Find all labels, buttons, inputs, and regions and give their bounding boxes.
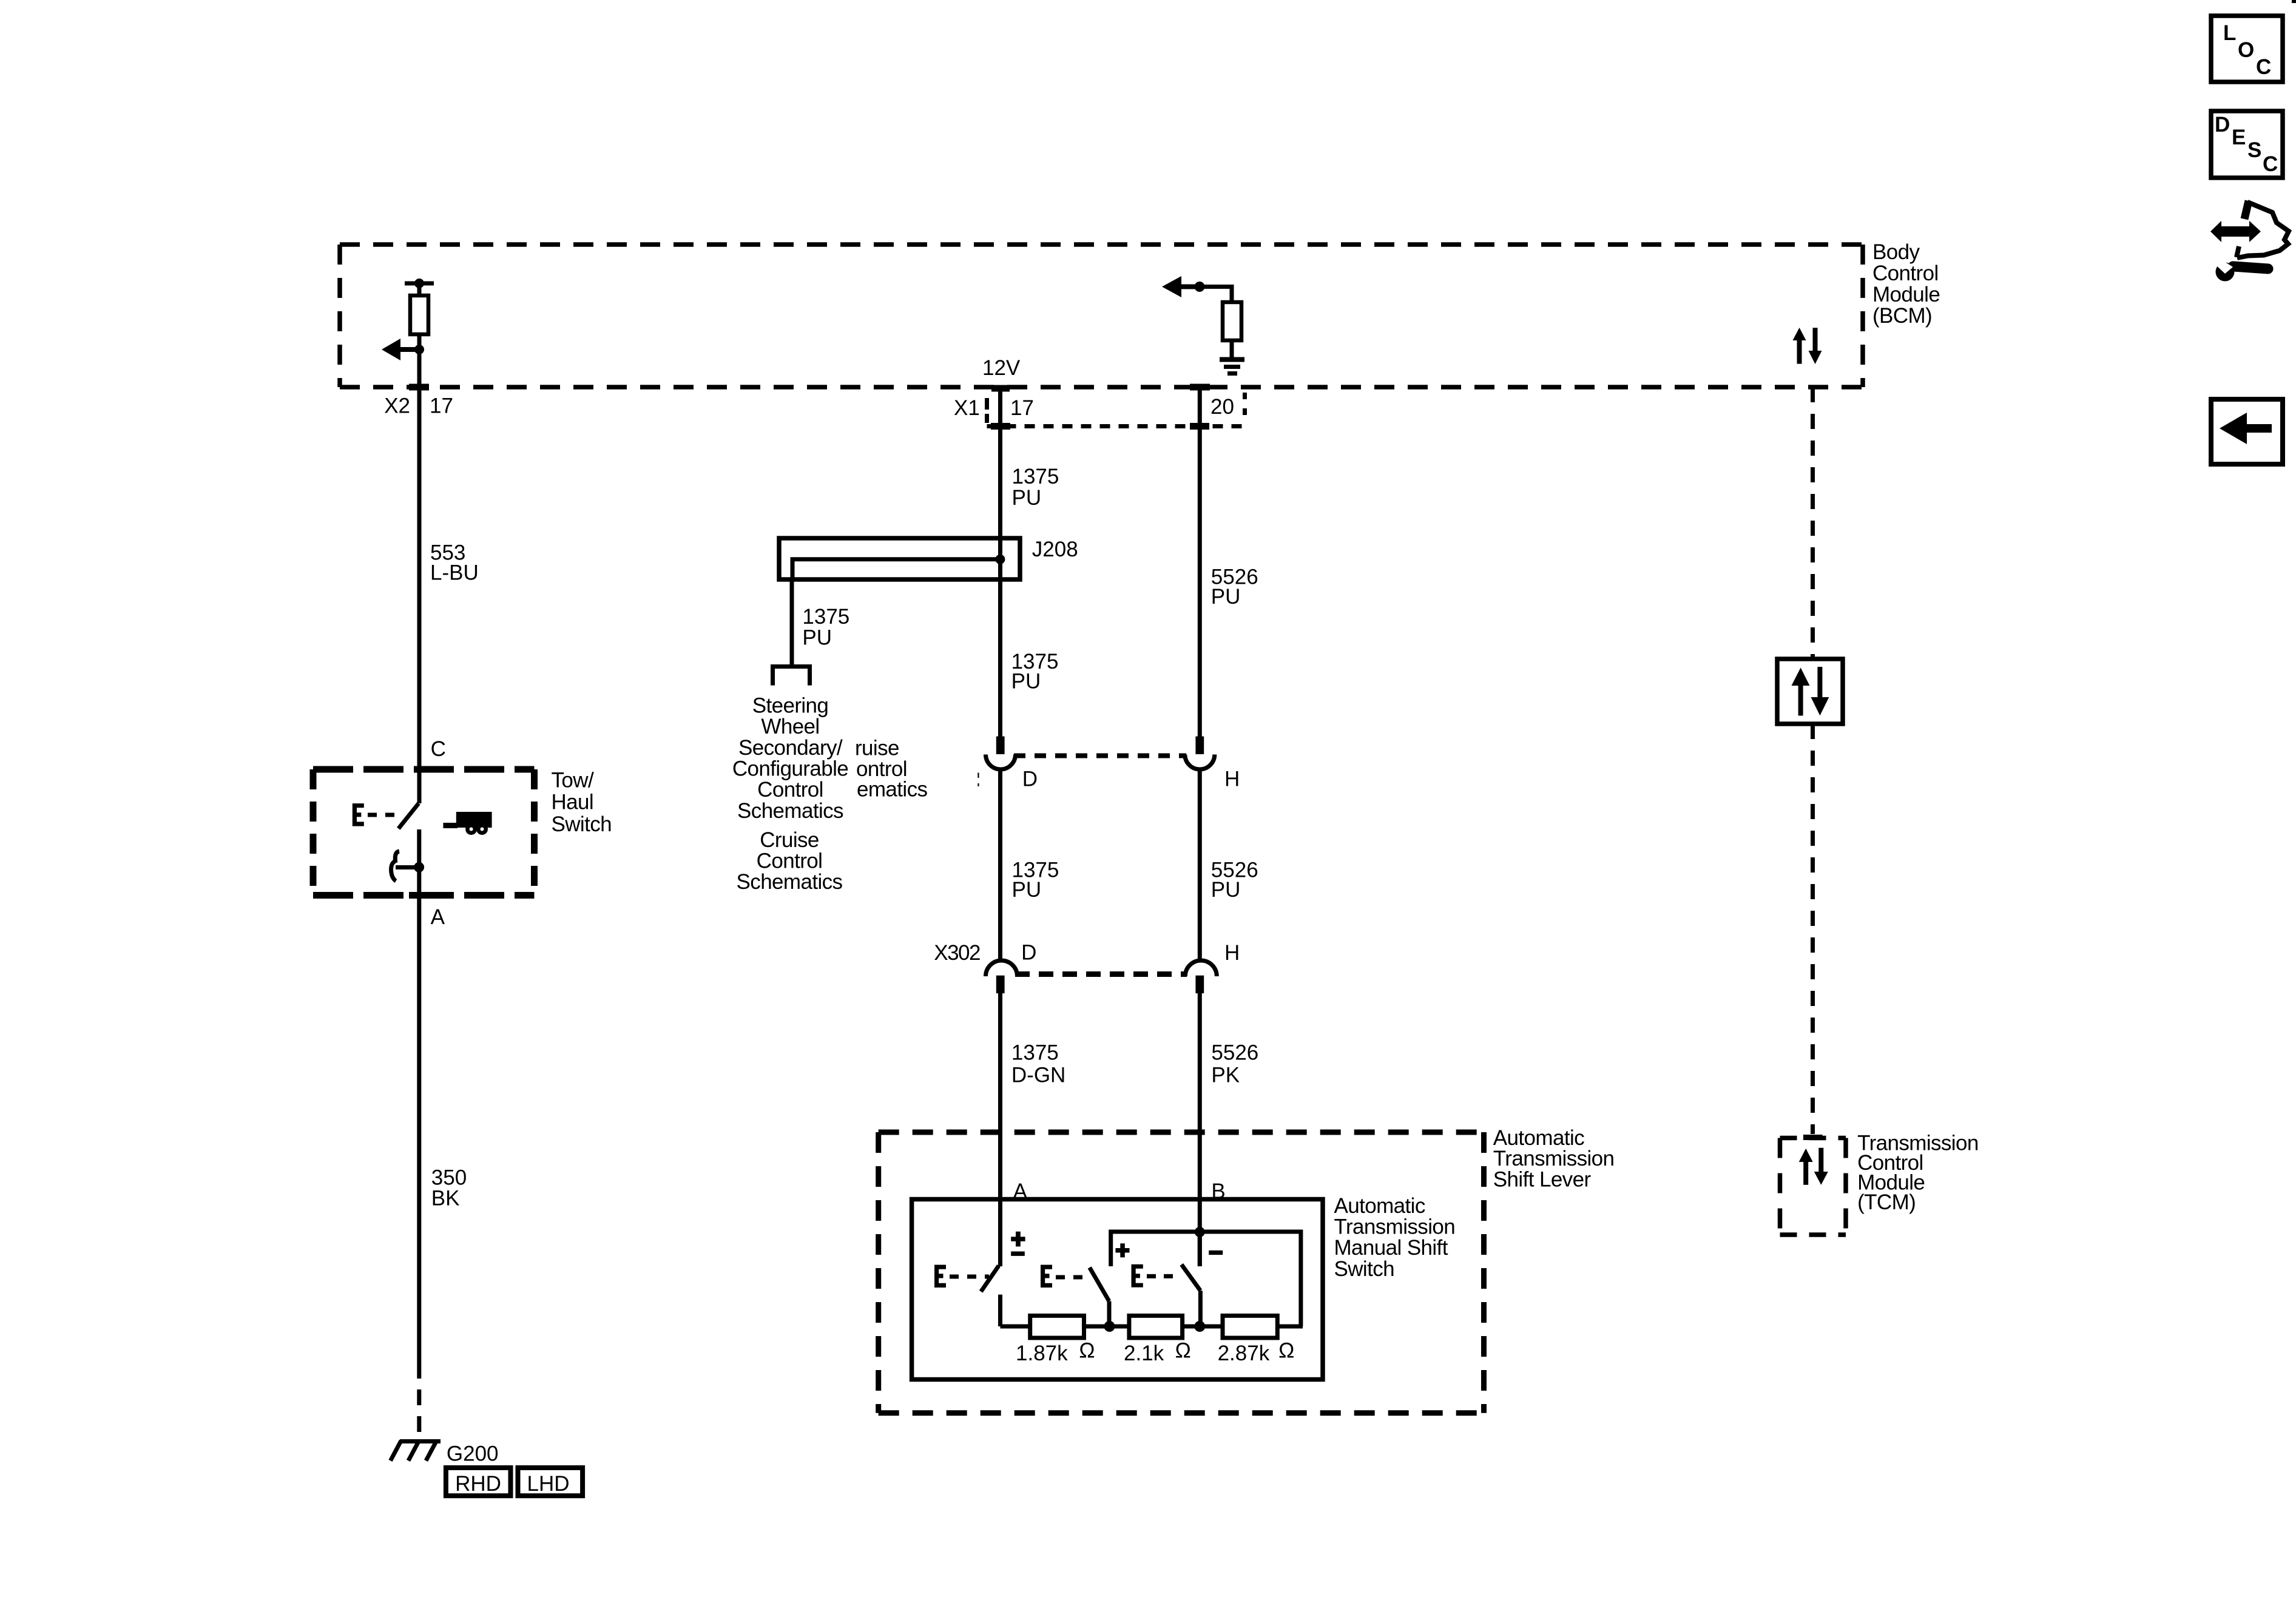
connector pin D (X302): [996, 976, 1005, 993]
svg-text:LHD: LHD: [527, 1472, 569, 1496]
detent hook symbol: [391, 851, 399, 881]
tow/haul switch E actuator glyph: [353, 803, 364, 826]
svg-text:PK: PK: [1211, 1064, 1240, 1087]
connector socket D (upper): [986, 755, 1016, 770]
switch 1 E actuator glyph: [934, 1265, 946, 1288]
Steering Wheel Secondary/Configurable Control Schematics label: [732, 694, 848, 823]
tow/haul actuator dashed line: [368, 813, 397, 817]
svg-text:5526: 5526: [1211, 1041, 1258, 1064]
svg-text:Schematics: Schematics: [737, 799, 843, 823]
svg-text:D: D: [1021, 941, 1036, 965]
svg-text:H: H: [1224, 941, 1240, 965]
connector socket D (X302): [986, 960, 1018, 976]
svg-text:G200: G200: [447, 1442, 499, 1465]
DESC hyperlink icon box: [2211, 111, 2283, 178]
dashed connector link D-H: [1014, 754, 1186, 758]
svg-text:Wheel: Wheel: [761, 715, 819, 738]
Automatic Transmission Shift Lever dashed box: [879, 1132, 1484, 1413]
wire 5526 from BCM pin 20 down to connector: [1198, 388, 1202, 737]
svg-text:2.87k: 2.87k: [1218, 1342, 1270, 1365]
svg-text:L: L: [2223, 21, 2236, 45]
junction dot (sw3): [1194, 1321, 1205, 1332]
rail to right riser: [1277, 1325, 1303, 1329]
trailer icon: [443, 812, 491, 835]
connector tick 20: [1190, 384, 1210, 391]
connector socket H (X302): [1185, 960, 1217, 976]
wire 1375 from BCM 12V to J208: [998, 388, 1002, 538]
svg-text:Switch: Switch: [1334, 1257, 1395, 1281]
svg-text:Cruise: Cruise: [760, 828, 819, 852]
switch 1 blade: [981, 1266, 999, 1292]
svg-text:PU: PU: [1012, 878, 1042, 902]
LOC hyperlink icon box: [2211, 16, 2283, 82]
junction dot B on rail: [1195, 1227, 1205, 1237]
vehicle-with-wrench icon: [2210, 201, 2289, 282]
svg-text:ematics: ematics: [857, 777, 927, 801]
branch wire 1375 to steering wheel controls: [790, 579, 794, 664]
switch 2 actuator dashed line: [1056, 1275, 1088, 1280]
svg-text:C: C: [2263, 152, 2278, 176]
BCM label: [1872, 240, 1940, 328]
svg-text:Haul: Haul: [552, 791, 594, 814]
wire 1375 through J208 down to connector: [998, 538, 1002, 737]
connector pin D (upper): [996, 737, 1005, 754]
svg-text:17: 17: [430, 394, 453, 418]
wire 1375 D-GN to shift lever: [998, 993, 1002, 1266]
svg-text:Transmission: Transmission: [1334, 1215, 1456, 1238]
svg-text:1375: 1375: [1011, 1041, 1059, 1064]
svg-text:20: 20: [1210, 395, 1234, 419]
connector tick X1-17: [991, 385, 1010, 392]
svg-text:PU: PU: [1211, 585, 1241, 609]
plus/minus symbol (tap-shift): [1011, 1232, 1025, 1256]
svg-text:RHD: RHD: [455, 1472, 501, 1496]
switch 2 lower contact stub: [1107, 1301, 1112, 1327]
plus symbol: [1116, 1243, 1130, 1257]
svg-text:J208: J208: [1032, 538, 1078, 561]
Cruise Control Schematics label: [737, 828, 843, 894]
off-page fork symbol: [771, 667, 812, 686]
minus symbol: [1209, 1251, 1223, 1255]
tow/haul switch blade: [399, 803, 419, 829]
LHD box: [518, 1468, 583, 1496]
wire from arrow junction to internal resistor (right): [1200, 285, 1232, 289]
wire 350 BK: [417, 896, 421, 1363]
gateway up/down arrows: [1792, 667, 1829, 716]
wire 5526 PK to shift lever: [1198, 993, 1202, 1266]
svg-text:Control: Control: [757, 778, 823, 802]
svg-text:Control: Control: [757, 849, 823, 873]
svg-text:X2: X2: [384, 394, 410, 418]
Automatic Transmission Manual Shift Switch box: [912, 1200, 1323, 1380]
sub-circuit +/- rail: [1111, 1232, 1301, 1326]
wire 5526 to X302: [1198, 768, 1202, 961]
svg-text:12V: 12V: [982, 356, 1021, 380]
svg-text:PU: PU: [1012, 486, 1042, 510]
connector socket H (upper): [1185, 755, 1215, 770]
wire 1375 to X302: [998, 768, 1002, 961]
svg-text:Module: Module: [1872, 283, 1940, 306]
Body Control Module (BCM) dashed box: [340, 245, 1863, 387]
X1 connector left dashes: [985, 398, 989, 423]
J208 internal bus bar: [792, 559, 1000, 579]
svg-text:Shift Lever: Shift Lever: [1493, 1167, 1592, 1191]
svg-text:C: C: [2256, 55, 2271, 79]
svg-text:Transmission: Transmission: [1493, 1147, 1615, 1170]
switch 3 blade: [1181, 1264, 1200, 1291]
dashed serial data wire from BCM: [1811, 387, 1815, 659]
svg-text:L-BU: L-BU: [430, 561, 479, 585]
svg-text:PU: PU: [802, 626, 832, 650]
vehicle outline: [2237, 202, 2289, 258]
svg-text:Ω: Ω: [1278, 1339, 1294, 1363]
Transmission Control Module dashed box: [1780, 1138, 1846, 1235]
svg-text:Manual Shift: Manual Shift: [1334, 1236, 1448, 1260]
tick where wire 5526 crosses connector line: [1190, 423, 1209, 430]
svg-text:E: E: [2232, 126, 2246, 149]
switch 3 E actuator glyph: [1132, 1264, 1143, 1288]
serial data gateway box: [1777, 659, 1843, 724]
svg-text:Control: Control: [1872, 262, 1939, 285]
svg-text:1375: 1375: [1012, 465, 1059, 488]
svg-text:Switch: Switch: [552, 812, 612, 836]
svg-text:H: H: [1224, 767, 1240, 791]
svg-text:Ω: Ω: [1175, 1339, 1191, 1363]
BCM internal resistor to ground (right): [1223, 302, 1241, 340]
svg-text:Schematics: Schematics: [737, 870, 843, 894]
TCM up/down arrows: [1799, 1148, 1828, 1185]
Tow/Haul Switch dashed box: [313, 769, 535, 896]
switch 2 E actuator glyph: [1041, 1265, 1052, 1288]
svg-text:Body: Body: [1872, 240, 1920, 264]
resistor 2.87k: [1223, 1315, 1277, 1338]
internal ground symbol: [1220, 360, 1244, 374]
svg-text:O: O: [2238, 38, 2254, 62]
svg-text:PU: PU: [1211, 878, 1241, 902]
resistor rail: [1001, 1325, 1030, 1329]
svg-text:1375: 1375: [802, 605, 849, 629]
svg-text:350: 350: [431, 1166, 467, 1190]
BCM left output arrow: [382, 339, 424, 360]
dashed wire to ground: [417, 1363, 421, 1439]
svg-text:C: C: [431, 737, 446, 761]
svg-text:(TCM): (TCM): [1857, 1190, 1916, 1214]
switch 2 blade: [1090, 1268, 1109, 1301]
svg-text:Configurable: Configurable: [732, 757, 848, 781]
rail segment: [1084, 1325, 1129, 1329]
resistor 2.1k: [1129, 1315, 1183, 1338]
dashed connector link X302: [1015, 971, 1187, 977]
resistor 1.87k: [1030, 1315, 1084, 1338]
svg-text:Automatic: Automatic: [1334, 1194, 1425, 1218]
svg-text:(BCM): (BCM): [1872, 304, 1932, 328]
switch 1 lower contact stub: [998, 1295, 1002, 1326]
TCM pin tick: [1803, 1135, 1823, 1140]
svg-text:D-GN: D-GN: [1011, 1064, 1065, 1087]
svg-text:X1: X1: [954, 396, 980, 420]
TCM label: [1857, 1131, 1979, 1214]
svg-text:17: 17: [1010, 396, 1034, 420]
svg-text:Ω: Ω: [1079, 1339, 1095, 1363]
wire B to minus terminal: [1198, 1232, 1202, 1267]
clipped Cruise Control Schematics fragments: [855, 737, 927, 802]
svg-text:BK: BK: [431, 1187, 460, 1210]
dashed serial data wire to TCM: [1811, 724, 1815, 1134]
switch 3 lower contact stub: [1198, 1291, 1203, 1326]
tick where wire 1375 crosses connector line: [991, 423, 1010, 430]
RHD box: [446, 1468, 511, 1496]
lower switch wire + junction: [417, 829, 421, 896]
svg-text:D: D: [1022, 767, 1038, 791]
tick at tow/haul box bottom: [409, 892, 429, 899]
svg-text:Tow/: Tow/: [552, 769, 594, 792]
double arrow: [2210, 221, 2261, 242]
svg-text:Steering: Steering: [752, 694, 829, 718]
svg-text:PU: PU: [1011, 669, 1041, 693]
back arrow icon box: [2211, 399, 2283, 464]
Tow/Haul Switch label: [552, 769, 612, 836]
switch 3 actuator dashed line: [1147, 1274, 1180, 1278]
junction dot (sw2): [1104, 1321, 1115, 1332]
svg-text:Automatic: Automatic: [1493, 1126, 1584, 1150]
rail segment: [1183, 1325, 1223, 1329]
svg-text:X302: X302: [934, 941, 980, 965]
wire 553 from BCM to Tow/Haul switch: [417, 349, 422, 803]
svg-text:2.1k: 2.1k: [1124, 1342, 1164, 1365]
svg-text:1.87k: 1.87k: [1016, 1342, 1068, 1365]
svg-text:Secondary/: Secondary/: [738, 736, 843, 760]
BCM up/down arrows (serial data): [1793, 328, 1822, 364]
X1 connector bottom dashed line: [987, 424, 1245, 428]
splice pack J208 box: [779, 538, 1020, 579]
X1 connector right dashes: [1243, 393, 1247, 420]
junction dot J208: [995, 555, 1005, 564]
connector pin H (X302): [1195, 976, 1204, 993]
ground symbol G200: [391, 1441, 441, 1461]
connector pin H (upper): [1195, 737, 1204, 754]
connector tick X2-17: [409, 384, 429, 391]
Automatic Transmission Shift Lever label: [1493, 1126, 1615, 1192]
svg-text:S: S: [2247, 138, 2261, 162]
switch 1 actuator dashed line: [950, 1275, 989, 1279]
wrench: [2233, 266, 2268, 269]
page corner artifact: [2292, 0, 2296, 3]
BCM internal pull-up resistor (left): [405, 279, 434, 349]
thin dashed artifact: [977, 773, 979, 787]
ATMSS label: [1334, 1194, 1456, 1281]
svg-text:D: D: [2215, 113, 2230, 137]
BCM right input arrow: [1162, 276, 1205, 297]
svg-text:A: A: [431, 905, 445, 929]
